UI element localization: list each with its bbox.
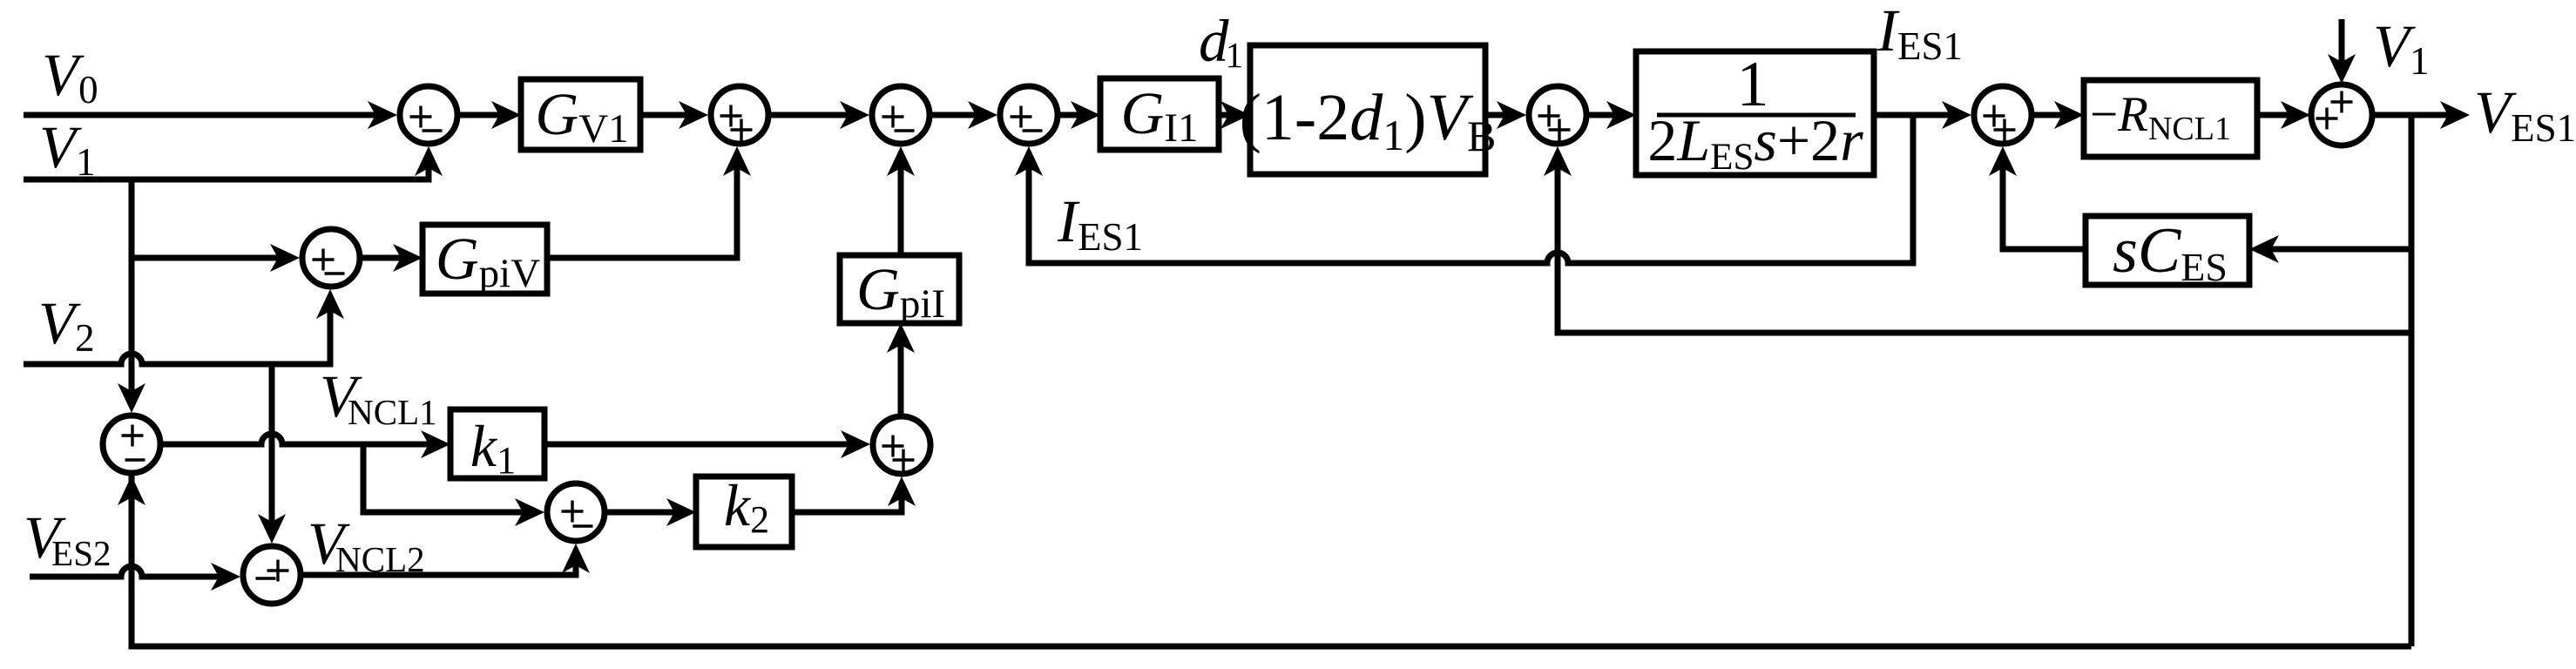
- svg-text:2LESs+2r: 2LESs+2r: [1647, 107, 1863, 178]
- svg-text:(1-2d1)VB: (1-2d1)VB: [1240, 81, 1497, 160]
